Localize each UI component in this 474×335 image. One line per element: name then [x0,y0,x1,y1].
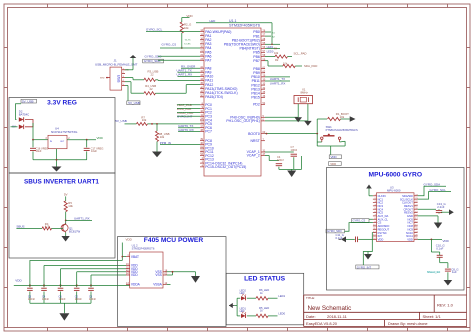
svg-text:USB_MICRO-B_FEMALE_SMT: USB_MICRO-B_FEMALE_SMT [95,62,138,66]
svg-text:5V: 5V [64,193,68,197]
svg-text:10k: 10k [340,115,345,119]
svg-text:GYRO_SDO: GYRO_SDO [327,229,342,233]
svg-text:10k: 10k [160,135,165,139]
svg-text:Drawn By: mesh.drone: Drawn By: mesh.drone [388,321,428,326]
svg-text:PC15-OSC32_OUT(PC15): PC15-OSC32_OUT(PC15) [205,165,246,169]
svg-text:VSS: VSS [155,273,161,277]
svg-text:100nf: 100nf [277,158,284,162]
svg-text:100nF: 100nF [75,298,83,301]
svg-text:UART1_RX: UART1_RX [270,81,286,85]
svg-text:PB7: PB7 [253,59,260,63]
svg-text:VDD: VDD [443,239,450,243]
svg-text:10uF: 10uF [36,149,42,153]
svg-text:Date:: Date: [306,314,316,319]
svg-text:USB: USB [116,75,120,83]
svg-text:100nF: 100nF [59,298,67,301]
svg-text:T2_TX: T2_TX [184,40,191,42]
svg-text:GYRO_CS: GYRO_CS [162,43,177,47]
svg-text:PA15(JTDI): PA15(JTDI) [205,95,223,99]
svg-text:BC817W: BC817W [69,229,81,233]
svg-text:0.1uF: 0.1uF [436,246,443,250]
svg-text:LED0: LED0 [267,50,274,54]
svg-text:100nF: 100nF [28,298,36,301]
svg-text:VBAT: VBAT [131,255,139,259]
svg-text:10k: 10k [184,26,189,30]
svg-text:22: 22 [151,73,155,77]
svg-text:VCAP_2: VCAP_2 [247,154,260,158]
svg-text:EasyEDA V5.8.20: EasyEDA V5.8.20 [306,321,338,326]
svg-text:NCP1117ST50T3G: NCP1117ST50T3G [51,130,78,134]
svg-text:MPU-6000: MPU-6000 [387,189,401,193]
svg-text:100nF: 100nF [89,298,97,301]
svg-text:BOOT0: BOOT0 [248,132,260,136]
svg-text:PH1-OSC_OUT(PH1): PH1-OSC_OUT(PH1) [226,119,259,123]
svg-text:LED: LED [240,310,245,313]
svg-text:SCL_PAD: SCL_PAD [294,51,307,55]
svg-text:New Schematic: New Schematic [308,305,352,312]
svg-text:SDA_PAD: SDA_PAD [304,64,317,68]
svg-text:R2: R2 [275,58,279,62]
svg-text:10uF: 10uF [91,149,97,153]
svg-text:100nF: 100nF [42,298,50,301]
svg-text:8MHz: 8MHz [301,91,309,95]
svg-text:PB15: PB15 [251,96,259,100]
svg-text:100nf: 100nf [291,148,298,152]
svg-text:3.3V REG: 3.3V REG [47,100,77,107]
svg-text:22: 22 [150,87,154,91]
svg-text:PTS810SJLD250SMTRLFS: PTS810SJLD250SMTRLFS [326,128,358,132]
svg-text:10k: 10k [274,51,279,55]
svg-text:F405 MCU POWER: F405 MCU POWER [144,237,204,244]
svg-text:TITLE:: TITLE: [306,296,315,300]
svg-text:PC7: PC7 [205,130,212,134]
svg-text:PD2: PD2 [253,103,260,107]
svg-text:VDD: VDD [331,155,337,159]
svg-text:10k: 10k [68,204,73,208]
svg-text:MPU-6000 GYRO: MPU-6000 GYRO [369,171,423,178]
svg-text:2.2nF: 2.2nF [437,205,444,209]
svg-text:LED0: LED0 [278,312,285,316]
svg-text:SBUS INVERTER UART1: SBUS INVERTER UART1 [24,178,99,185]
svg-text:LED: LED [210,19,217,23]
svg-text:SBUS: SBUS [16,224,24,228]
svg-text:STM32F405RGT6: STM32F405RGT6 [132,247,155,251]
svg-text:NRST: NRST [250,139,260,143]
svg-text:Sheet_1A: Sheet_1A [427,270,440,274]
svg-text:LED1: LED1 [278,294,285,298]
svg-text:UART1_RX: UART1_RX [177,73,193,77]
svg-text:LED: LED [240,292,245,295]
svg-text:5V_USB: 5V_USB [115,119,127,123]
svg-text:PA7: PA7 [205,59,211,63]
svg-text:GYRO_SDA: GYRO_SDA [144,59,161,63]
svg-text:10k: 10k [142,118,147,122]
svg-text:5V_USB: 5V_USB [22,99,34,103]
svg-text:VDD: VDD [407,237,413,241]
svg-text:T2_RX: T2_RX [184,44,191,46]
svg-text:LED STATUS: LED STATUS [244,275,286,282]
svg-text:VDD: VDD [378,237,384,241]
svg-text:Sheet: 1/1: Sheet: 1/1 [423,314,442,319]
svg-text:SHD: SHD [100,77,105,79]
svg-text:GYRO_SDA: GYRO_SDA [424,182,441,186]
svg-text:VDD: VDD [15,278,22,282]
svg-text:VDD: VDD [126,238,133,242]
svg-text:REV: 1.0: REV: 1.0 [437,303,454,308]
svg-text:VSSA: VSSA [153,283,162,287]
svg-text:R4: R4 [274,47,278,51]
svg-text:2018-11-11: 2018-11-11 [327,314,348,319]
svg-text:STM32F405RGT6: STM32F405RGT6 [229,23,260,27]
svg-text:1uF: 1uF [452,270,457,274]
svg-text:VDDA: VDDA [131,283,141,287]
svg-text:GYRO_CS: GYRO_CS [353,219,366,223]
svg-text:5V_USB: 5V_USB [128,101,140,105]
svg-text:UART1_RX: UART1_RX [74,217,90,221]
svg-text:VDD: VDD [97,136,104,140]
svg-text:GYRO_SCL: GYRO_SCL [146,28,163,32]
svg-text:BAT54C: BAT54C [19,113,29,117]
svg-text:VDD: VDD [131,273,138,277]
svg-text:GYRO_INT: GYRO_INT [177,115,193,119]
